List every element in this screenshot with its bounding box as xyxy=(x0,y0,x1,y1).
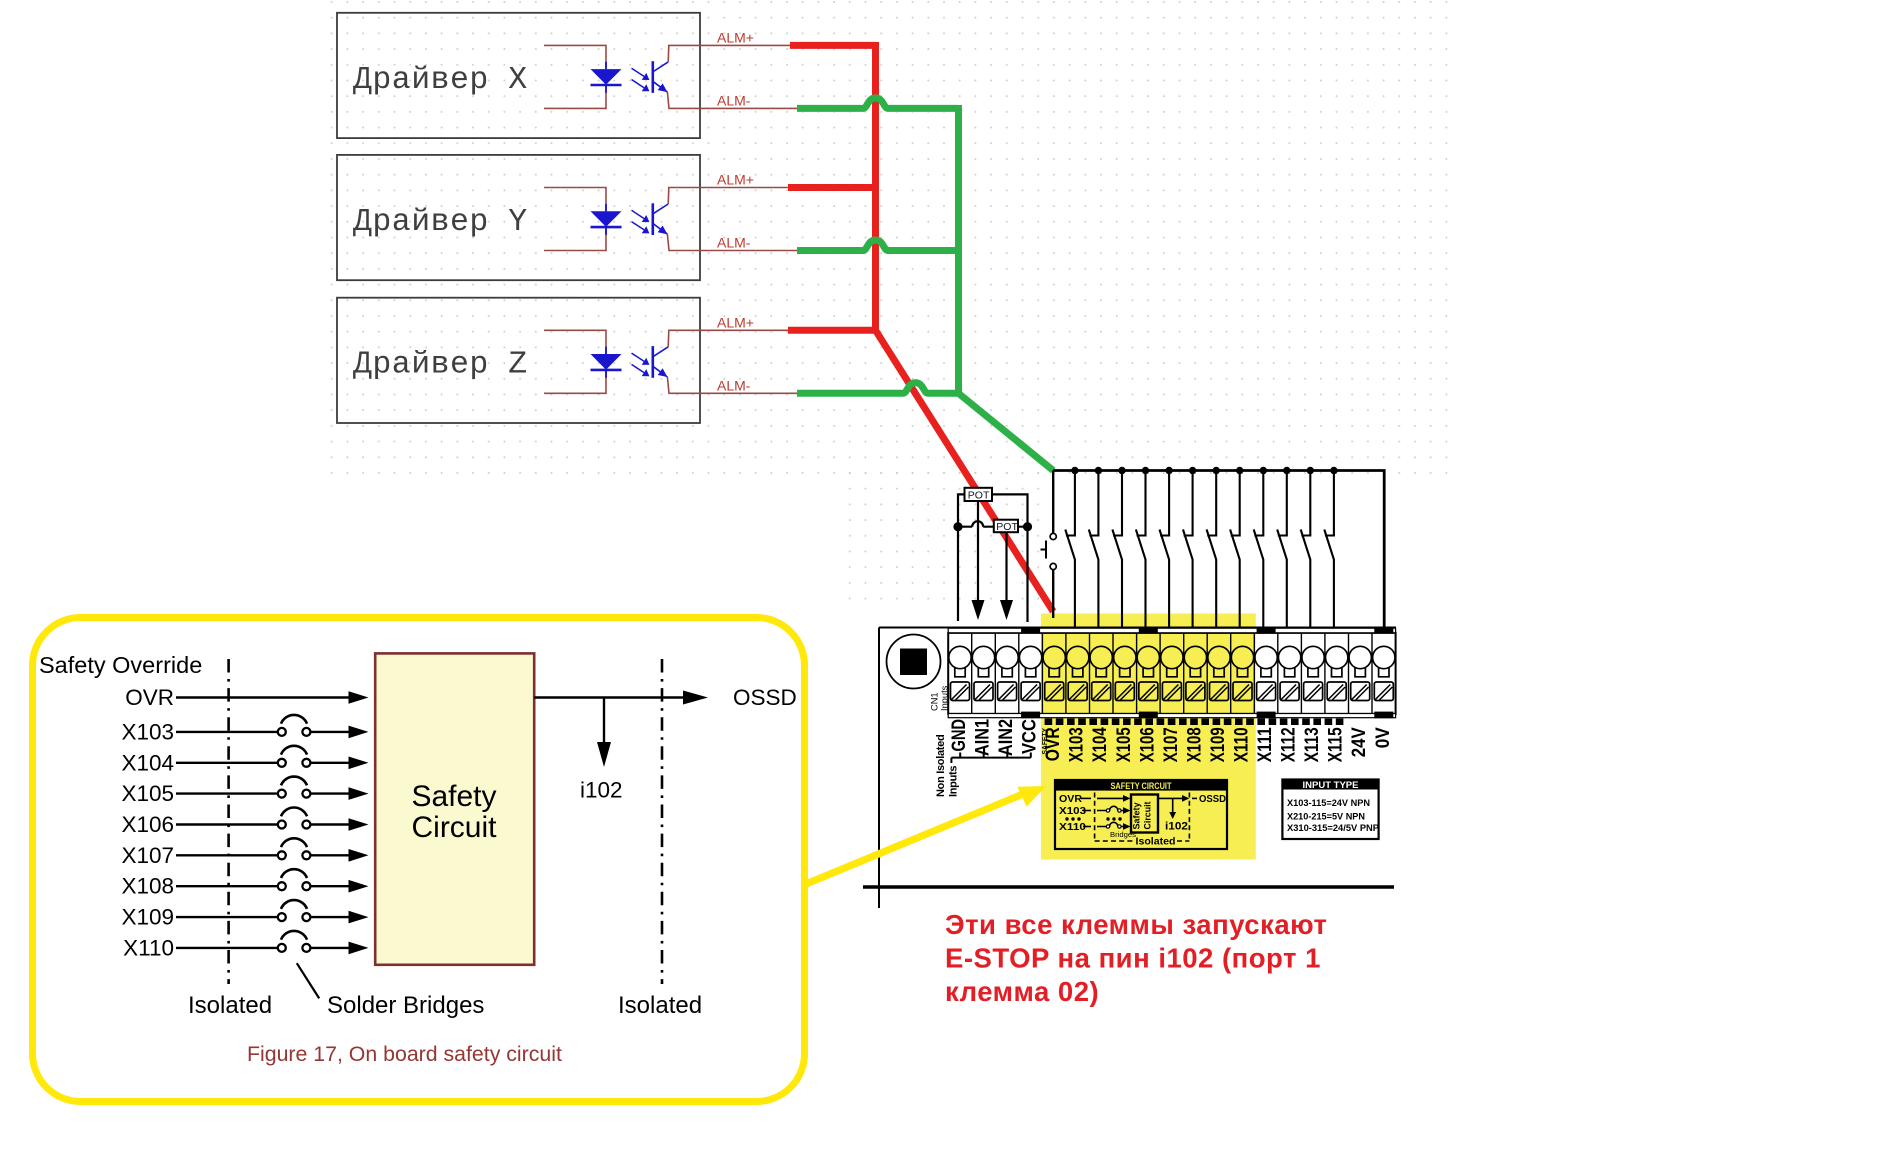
inset i102 branch xyxy=(1172,798,1174,812)
board bottom separator line xyxy=(863,885,1394,888)
svg-text:GND: GND xyxy=(948,719,970,752)
svg-text:X210-215=5V NPN: X210-215=5V NPN xyxy=(1287,811,1365,822)
switch to X109 xyxy=(1207,471,1217,629)
OSSD output wire xyxy=(534,696,683,698)
yellow highlight band over safety terminals xyxy=(1041,614,1256,860)
svg-text:ALM-: ALM- xyxy=(717,377,751,393)
phototransistor base (Драйвер Y) xyxy=(651,203,654,235)
svg-text:i102: i102 xyxy=(1165,821,1188,833)
optocoupler LED cathode wire (Драйвер X) xyxy=(544,85,606,109)
Safety Circuit block xyxy=(375,653,534,964)
wire ALM+ X (red) xyxy=(790,42,876,49)
svg-text:AIN1: AIN1 xyxy=(972,719,994,756)
switch to X104 xyxy=(1089,471,1099,629)
optocoupler light arrow 2 (Драйвер Y) xyxy=(632,222,645,230)
terminal X107 xyxy=(1159,633,1161,714)
junction dot left xyxy=(953,522,962,531)
switch to X113 xyxy=(1301,471,1311,629)
svg-text:X109: X109 xyxy=(121,905,174,930)
svg-text:X108: X108 xyxy=(1183,727,1205,762)
junction dot on bus (X113) xyxy=(1307,467,1314,474)
optocoupler LED anode wire (Драйвер X) xyxy=(544,45,606,69)
switch to X111 xyxy=(1254,471,1264,629)
svg-text:X110: X110 xyxy=(1231,727,1253,762)
solder bridge X107 xyxy=(278,851,286,859)
optocoupler LED anode wire (Драйвер Y) xyxy=(544,188,606,212)
phototransistor base (Драйвер X) xyxy=(651,61,654,93)
svg-text:Isolated: Isolated xyxy=(618,992,702,1019)
E-stop pushbutton (OVR line) xyxy=(1052,471,1054,619)
terminal GND xyxy=(949,646,971,668)
rim tick at terminal 0V bottom xyxy=(1374,712,1393,719)
svg-text:Isolated: Isolated xyxy=(1136,836,1176,848)
collector wire to ALM+ (Драйвер Y) xyxy=(668,188,790,205)
POT wiring xyxy=(958,494,1028,622)
svg-text:OSSD: OSSD xyxy=(1199,793,1226,805)
0V common bus xyxy=(1053,471,1384,628)
junction dot on bus (X106) xyxy=(1142,467,1149,474)
emitter wire to ALM- (Драйвер Y) xyxy=(667,234,797,250)
terminal X110 xyxy=(1230,633,1232,714)
svg-text:X104: X104 xyxy=(121,750,174,775)
solder bridge X105 xyxy=(278,790,286,798)
terminal OVR xyxy=(1041,633,1043,714)
svg-text:INPUT TYPE: INPUT TYPE xyxy=(1303,780,1360,791)
phototransistor emitter with arrow (Драйвер X) xyxy=(653,82,667,92)
junction dot on bus (X109) xyxy=(1213,467,1220,474)
wire ALM- Y (green with hop) xyxy=(797,240,959,251)
driver box Драйвер Y outline xyxy=(337,155,700,280)
terminal X112 xyxy=(1277,633,1279,714)
phototransistor emitter with arrow (Драйвер Y) xyxy=(653,224,667,234)
INPUT TYPE legend box xyxy=(1282,780,1378,840)
svg-text:X105: X105 xyxy=(1113,727,1135,762)
POT box 2 xyxy=(994,520,1018,533)
collector wire to ALM+ (Драйвер Z) xyxy=(668,330,790,347)
svg-text:Non Isolated: Non Isolated xyxy=(935,735,947,797)
board top edge xyxy=(879,627,1396,629)
inset dashed isolation line left xyxy=(1094,793,1096,842)
svg-text:Circuit: Circuit xyxy=(1143,801,1154,830)
switch to X115 xyxy=(1324,471,1334,629)
solder bridge X110 xyxy=(278,944,286,952)
svg-text:Safety: Safety xyxy=(1132,802,1143,830)
red vertical wire xyxy=(872,42,879,330)
emitter wire to ALM- (Драйвер Z) xyxy=(667,377,797,393)
svg-text:X106: X106 xyxy=(1136,727,1158,762)
isolated dash-dot line left xyxy=(227,659,230,984)
svg-text:Figure 17, On board safety cir: Figure 17, On board safety circuit xyxy=(247,1042,562,1066)
solder bridge X108 xyxy=(278,882,286,890)
phototransistor collector (Драйвер Z) xyxy=(653,347,668,357)
junction dot on bus (X111) xyxy=(1260,467,1267,474)
svg-text:Драйвер Y: Драйвер Y xyxy=(353,205,528,240)
terminal strip outline xyxy=(948,633,1395,714)
non-isolated bracket xyxy=(951,753,1030,764)
junction dot on bus (X104) xyxy=(1095,467,1102,474)
isolated dash-dot line right xyxy=(661,659,664,984)
svg-text:POT: POT xyxy=(968,490,990,502)
terminal X115 xyxy=(1324,633,1326,714)
svg-text:Драйвер X: Драйвер X xyxy=(353,63,528,98)
svg-text:ALM+: ALM+ xyxy=(717,172,754,188)
svg-text:X310-315=24/5V PNP: X310-315=24/5V PNP xyxy=(1287,823,1380,834)
optocoupler LED cathode wire (Драйвер Y) xyxy=(544,227,606,251)
solder bridge X106 xyxy=(278,821,286,829)
svg-text:ALM+: ALM+ xyxy=(717,314,754,330)
junction dot on bus (X107) xyxy=(1165,467,1172,474)
rim tick at terminal 0V top xyxy=(1374,628,1393,634)
terminal X105 xyxy=(1112,633,1114,714)
optocoupler light arrow 1 (Драйвер Y) xyxy=(632,210,645,218)
svg-text:Драйвер Z: Драйвер Z xyxy=(353,348,528,383)
terminal AIN2 xyxy=(994,633,996,714)
driver box Драйвер X outline xyxy=(337,13,700,138)
emitter wire to ALM- (Драйвер X) xyxy=(667,92,797,108)
rim tick at terminal X106 bottom xyxy=(1139,712,1158,719)
optocoupler light arrow 1 (Драйвер X) xyxy=(632,68,645,76)
phototransistor collector (Драйвер X) xyxy=(653,62,668,72)
wire ALM+ Y (red) xyxy=(788,184,876,191)
svg-text:OSSD: OSSD xyxy=(733,685,797,710)
junction dot on bus (X108) xyxy=(1189,467,1196,474)
rim tick at terminal VCC bottom xyxy=(1021,712,1040,719)
optocoupler LED cathode wire (Драйвер Z) xyxy=(544,370,606,394)
svg-text:X105: X105 xyxy=(121,781,174,806)
svg-text:OVR: OVR xyxy=(125,685,174,710)
terminal X113 xyxy=(1300,633,1302,714)
svg-text:X106: X106 xyxy=(121,812,174,837)
wire ALM+ Z (red) xyxy=(788,327,876,334)
svg-text:X110: X110 xyxy=(1059,821,1086,833)
wire ALM- Z (green with hop over red diagonal) xyxy=(797,383,959,394)
svg-text:X104: X104 xyxy=(1089,727,1111,762)
optocoupler LED (Драйвер Y) xyxy=(605,204,607,235)
red diagonal wire to OVR terminal xyxy=(876,330,1054,611)
inset Safety Circuit block xyxy=(1131,795,1158,833)
switch to X106 xyxy=(1136,471,1146,629)
SAFETY CIRCUIT inset box xyxy=(1055,780,1227,849)
svg-text:Inputs: Inputs xyxy=(940,685,950,711)
terminal VCC xyxy=(1018,633,1020,714)
svg-text:X103: X103 xyxy=(1066,727,1088,762)
svg-text:X110: X110 xyxy=(123,935,174,960)
junction dot on bus (X105) xyxy=(1118,467,1125,474)
svg-text:E-STOP на пин i102 (порт 1: E-STOP на пин i102 (порт 1 xyxy=(945,943,1321,974)
rim tick at terminal VCC top xyxy=(1021,628,1040,634)
svg-text:Safety Override: Safety Override xyxy=(39,652,202,678)
green vertical wire xyxy=(955,105,962,393)
board left edge xyxy=(878,628,880,909)
collector wire to ALM+ (Драйвер X) xyxy=(668,45,790,62)
junction dot right xyxy=(1023,522,1032,531)
green diagonal wire to switch bus xyxy=(959,393,1054,470)
junction dot on bus (X103) xyxy=(1071,467,1078,474)
terminal X111 xyxy=(1253,633,1255,714)
svg-text:Solder Bridges: Solder Bridges xyxy=(327,992,484,1019)
terminal X104 xyxy=(1089,633,1091,714)
terminal AIN1 xyxy=(971,633,973,714)
mounting hole square xyxy=(900,649,927,676)
svg-text:клемма 02): клемма 02) xyxy=(945,976,1099,1007)
svg-text:POT: POT xyxy=(996,521,1018,533)
svg-text:X112: X112 xyxy=(1278,727,1300,762)
AIN1 wire with arrow xyxy=(977,501,979,600)
optocoupler LED (Драйвер X) xyxy=(605,62,607,93)
svg-text:ALM-: ALM- xyxy=(717,92,751,108)
terminal strip bottom rim xyxy=(948,714,1395,718)
i102 branch xyxy=(603,698,605,743)
terminal strip top rim xyxy=(948,628,1395,633)
svg-text:X103: X103 xyxy=(1059,805,1086,817)
svg-text:VCC: VCC xyxy=(1019,719,1041,754)
svg-text:X108: X108 xyxy=(121,874,174,899)
inset ellipsis dots xyxy=(1065,817,1121,820)
svg-text:0V: 0V xyxy=(1372,727,1394,748)
svg-text:X113: X113 xyxy=(1301,727,1323,762)
rim tick at terminal X111 top xyxy=(1257,628,1276,634)
svg-text:Эти все клеммы запускают: Эти все клеммы запускают xyxy=(945,909,1327,940)
svg-text:X111: X111 xyxy=(1254,727,1276,762)
solder bridge X109 xyxy=(278,913,286,921)
svg-text:X103: X103 xyxy=(121,719,174,744)
phototransistor base (Драйвер Z) xyxy=(651,346,654,378)
terminal 24V xyxy=(1348,633,1350,714)
Solder Bridges pointer xyxy=(297,963,319,998)
svg-text:X107: X107 xyxy=(121,843,174,868)
inset OSSD label xyxy=(1192,797,1197,799)
switch to X103 xyxy=(1065,471,1075,629)
switch to X108 xyxy=(1183,471,1193,629)
optocoupler light arrow 1 (Драйвер Z) xyxy=(632,353,645,361)
optocoupler LED (Драйвер Z) xyxy=(605,347,607,378)
optocoupler LED anode wire (Драйвер Z) xyxy=(544,330,606,354)
inset output wire xyxy=(1158,797,1183,799)
svg-text:AIN2: AIN2 xyxy=(995,719,1017,756)
rim tick at terminal X111 bottom xyxy=(1257,712,1276,719)
AIN2 wire with arrow xyxy=(1005,532,1007,600)
rim tick at terminal X106 top xyxy=(1139,628,1158,634)
svg-text:X109: X109 xyxy=(1207,727,1229,762)
switch to X107 xyxy=(1160,471,1170,629)
switch to X112 xyxy=(1277,471,1287,629)
terminal X109 xyxy=(1206,633,1208,714)
solder pad dash row xyxy=(1045,719,1344,726)
svg-text:X103-115=24V NPN: X103-115=24V NPN xyxy=(1287,798,1370,809)
junction dot on bus (X110) xyxy=(1236,467,1243,474)
yellow arrow to safety terminals xyxy=(806,794,1024,884)
switch to X105 xyxy=(1112,471,1122,629)
phototransistor collector (Драйвер Y) xyxy=(653,204,668,214)
optocoupler light arrow 2 (Драйвер X) xyxy=(632,80,645,88)
svg-text:SAFETY: SAFETY xyxy=(1040,728,1049,755)
wire ALM- X (green with hop) xyxy=(797,98,959,109)
svg-text:ALM+: ALM+ xyxy=(717,29,754,45)
solder bridge X103 xyxy=(278,728,286,736)
terminal X106 xyxy=(1136,633,1138,714)
junction dot on bus (X112) xyxy=(1283,467,1290,474)
junction dot on bus (X115) xyxy=(1330,467,1337,474)
svg-text:X115: X115 xyxy=(1325,727,1347,762)
svg-text:SAFETY CIRCUIT: SAFETY CIRCUIT xyxy=(1111,781,1172,792)
svg-text:OVR: OVR xyxy=(1059,793,1082,805)
svg-text:Circuit: Circuit xyxy=(411,811,497,844)
svg-text:X107: X107 xyxy=(1160,727,1182,762)
svg-text:24V: 24V xyxy=(1348,727,1370,757)
svg-text:Bridges: Bridges xyxy=(1110,830,1136,839)
optocoupler light arrow 2 (Драйвер Z) xyxy=(632,364,645,372)
phototransistor emitter with arrow (Драйвер Z) xyxy=(653,367,667,377)
driver box Драйвер Z outline xyxy=(337,298,700,423)
mounting hole circle xyxy=(887,635,941,689)
solder bridge X104 xyxy=(278,759,286,767)
svg-text:CN1: CN1 xyxy=(930,692,940,711)
svg-text:ALM-: ALM- xyxy=(717,235,751,251)
inset Isolated dashed bottom xyxy=(1095,840,1133,842)
terminal 0V xyxy=(1371,633,1373,714)
POT box 1 xyxy=(965,488,993,501)
terminal X108 xyxy=(1183,633,1185,714)
svg-text:Safety: Safety xyxy=(411,780,496,813)
svg-text:Isolated: Isolated xyxy=(188,992,272,1019)
terminal X103 xyxy=(1065,633,1067,714)
yellow rounded figure box xyxy=(33,618,805,1102)
inset dashed isolation line right xyxy=(1188,793,1190,842)
switch to X110 xyxy=(1230,471,1240,629)
svg-text:Inputs: Inputs xyxy=(948,766,960,797)
svg-text:i102: i102 xyxy=(580,778,623,803)
